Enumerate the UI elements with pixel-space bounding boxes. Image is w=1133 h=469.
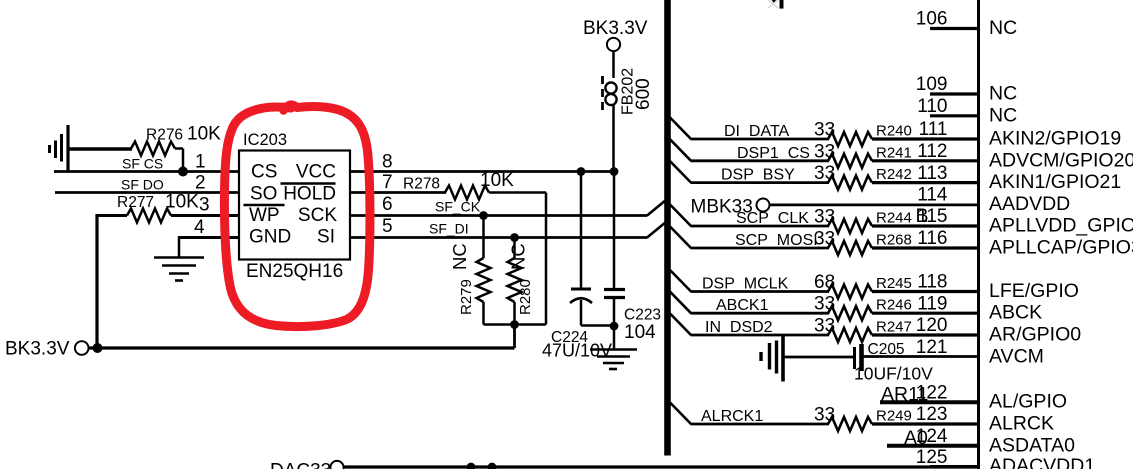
wire signal ALRCK1 bbox=[691, 423, 830, 426]
svg-text:SF DO: SF DO bbox=[121, 177, 164, 193]
svg-text:ABCK: ABCK bbox=[989, 302, 1042, 324]
svg-text:R245: R245 bbox=[876, 275, 912, 292]
svg-text:ALRCK: ALRCK bbox=[989, 413, 1054, 435]
svg-text:AADVDD: AADVDD bbox=[989, 193, 1070, 215]
svg-text:111: 111 bbox=[919, 119, 948, 140]
wire rail R279/R280 bottom bbox=[484, 323, 547, 326]
svg-text:10K: 10K bbox=[187, 124, 221, 145]
junction dot pin1/R276 bbox=[178, 167, 188, 177]
svg-text:BK3.3V: BK3.3V bbox=[5, 339, 70, 360]
resistor R279 NC bbox=[482, 216, 485, 259]
svg-text:SCK: SCK bbox=[298, 205, 337, 226]
wire R277 riser to BK3.3V rail bbox=[95, 214, 98, 348]
svg-text:10UF/10V: 10UF/10V bbox=[854, 364, 933, 384]
capacitor C223 104 bbox=[613, 172, 616, 290]
svg-text:IN_DSD2: IN_DSD2 bbox=[705, 319, 773, 336]
annotation red circle bbox=[224, 107, 370, 327]
wire SF CS (pin 1) bbox=[54, 170, 239, 173]
resistor R249 value 33 bbox=[828, 417, 872, 431]
svg-text:HOLD: HOLD bbox=[283, 184, 336, 205]
resistor R268 value 33 bbox=[828, 241, 872, 255]
svg-text:AKIN2/GPIO19: AKIN2/GPIO19 bbox=[989, 128, 1121, 150]
svg-text:APLLCAP/GPIO3: APLLCAP/GPIO3 bbox=[989, 237, 1133, 259]
power BK3.3V terminal left bbox=[75, 341, 89, 355]
svg-text:R240: R240 bbox=[876, 123, 912, 140]
resistor R242 value 33 bbox=[828, 176, 872, 190]
svg-text:NC: NC bbox=[449, 243, 470, 270]
svg-text:SF CS: SF CS bbox=[122, 156, 163, 172]
svg-text:33: 33 bbox=[814, 141, 835, 162]
bus vertical thick bbox=[664, 0, 671, 456]
wire pin 4 bbox=[179, 236, 239, 239]
wire R277 to pin 3 bbox=[171, 214, 239, 217]
wire R245 to pin 118 bbox=[872, 290, 978, 293]
svg-text:SCP_MOSI: SCP_MOSI bbox=[735, 232, 818, 249]
svg-text:DSP1_CS: DSP1_CS bbox=[737, 145, 810, 162]
wire signal DSP_BSY bbox=[691, 181, 830, 184]
svg-text:R242: R242 bbox=[876, 166, 912, 183]
svg-text:33: 33 bbox=[814, 294, 835, 315]
svg-text:B: B bbox=[916, 205, 929, 227]
ferrite bead FB202 600 bbox=[605, 82, 616, 93]
svg-text:AR/GPIO0: AR/GPIO0 bbox=[989, 324, 1081, 346]
svg-text:VCC: VCC bbox=[296, 162, 336, 183]
svg-text:ASDATA0: ASDATA0 bbox=[989, 434, 1075, 456]
wire bus diagonal pin 119 bbox=[670, 292, 691, 314]
wire R247 to pin 120 bbox=[872, 333, 978, 336]
svg-text:AVCM: AVCM bbox=[989, 346, 1044, 368]
wire pin 110 stub bbox=[930, 114, 978, 117]
junction dot SI/R280 bbox=[510, 233, 519, 242]
wire pin 122 stub bbox=[880, 400, 978, 404]
wire MBK33 to pin 114 bbox=[770, 203, 979, 206]
svg-text:5: 5 bbox=[382, 216, 393, 237]
svg-text:33: 33 bbox=[814, 207, 835, 228]
svg-text:3: 3 bbox=[199, 195, 210, 216]
svg-text:LFE/GPIO: LFE/GPIO bbox=[989, 280, 1079, 302]
svg-text:118: 118 bbox=[917, 272, 947, 293]
svg-text:IC203: IC203 bbox=[243, 131, 287, 149]
svg-text:122: 122 bbox=[916, 382, 948, 403]
svg-text:123: 123 bbox=[916, 404, 948, 425]
svg-text:68: 68 bbox=[814, 272, 835, 293]
junction dot rail/R280 bbox=[510, 320, 519, 329]
svg-text:116: 116 bbox=[917, 228, 947, 249]
svg-text:DAC33: DAC33 bbox=[270, 461, 331, 469]
svg-text:EN25QH16: EN25QH16 bbox=[246, 261, 343, 282]
svg-text:WP: WP bbox=[249, 205, 280, 226]
wire signal DSP1_CS bbox=[691, 159, 830, 162]
wire pin 7 to R278 bbox=[350, 191, 446, 194]
svg-text:R277: R277 bbox=[117, 194, 154, 211]
svg-text:DSP_BSY: DSP_BSY bbox=[721, 167, 795, 184]
resistor R276 bbox=[131, 142, 175, 156]
svg-text:125: 125 bbox=[916, 447, 948, 468]
resistor R247 value 33 bbox=[828, 328, 872, 342]
resistor R277 bbox=[97, 214, 127, 217]
wire SF DO (pin 2) bbox=[55, 191, 239, 194]
svg-text:SF_CK: SF_CK bbox=[435, 199, 481, 215]
svg-text:AL/GPIO: AL/GPIO bbox=[989, 391, 1067, 413]
ground G2 bbox=[154, 256, 204, 259]
wire pin 124 stub bbox=[887, 444, 978, 448]
svg-text:ADVCM/GPIO20: ADVCM/GPIO20 bbox=[989, 149, 1133, 171]
junction dot BK3.3V/R277 bbox=[93, 343, 103, 353]
svg-text:1: 1 bbox=[195, 152, 206, 173]
svg-text:C205: C205 bbox=[868, 341, 905, 358]
svg-text:R279: R279 bbox=[458, 279, 475, 315]
svg-text:GND: GND bbox=[249, 227, 291, 248]
wire FB202 to VCC node bbox=[612, 105, 615, 172]
wire bus diagonal pin 115 bbox=[670, 205, 691, 227]
resistor R245 value 68 bbox=[828, 285, 872, 299]
svg-text:10K: 10K bbox=[480, 170, 514, 191]
svg-text:SI: SI bbox=[317, 227, 335, 248]
ground G3 bbox=[590, 348, 637, 351]
wire bus diagonal pin 111 bbox=[670, 118, 691, 140]
svg-text:R276: R276 bbox=[146, 127, 183, 144]
svg-text:33: 33 bbox=[814, 163, 835, 184]
wire ground to C205 bbox=[783, 356, 854, 359]
resistor R241 value 33 bbox=[828, 154, 872, 168]
svg-text:DSP_MCLK: DSP_MCLK bbox=[702, 276, 789, 293]
wire bus diagonal pin 112 bbox=[670, 139, 691, 161]
resistor R246 value 33 bbox=[828, 306, 872, 320]
svg-text:ALRCK1: ALRCK1 bbox=[701, 408, 763, 425]
svg-text:NC: NC bbox=[989, 17, 1017, 39]
svg-text:ADACVDD1: ADACVDD1 bbox=[989, 455, 1095, 469]
junction dot C223/C224 ground bbox=[610, 322, 619, 331]
wire SF_DI pin 5 bbox=[350, 236, 647, 239]
svg-text:33: 33 bbox=[814, 405, 835, 426]
wire signal ABCK1 bbox=[691, 312, 830, 315]
junction dot on DAC33 wire bbox=[467, 463, 476, 469]
wire SF_CK pin 6 bbox=[350, 214, 647, 217]
svg-text:APLLVDD_GPIO: APLLVDD_GPIO bbox=[989, 215, 1133, 237]
capacitor C205 10UF/10V bbox=[853, 347, 856, 369]
svg-text:6: 6 bbox=[382, 194, 393, 215]
svg-text:33: 33 bbox=[814, 229, 835, 250]
wire DAC33 bbox=[344, 465, 979, 468]
wire R276 to node bbox=[175, 147, 183, 150]
wire riser rail to BK3.3V bbox=[513, 325, 516, 349]
svg-text:NC: NC bbox=[989, 104, 1017, 126]
wire ground to R276 bbox=[68, 147, 132, 150]
svg-text:R278: R278 bbox=[403, 176, 440, 193]
svg-text:113: 113 bbox=[917, 163, 947, 184]
wire R246 to pin 119 bbox=[872, 312, 978, 315]
wire pin 109 stub bbox=[930, 92, 978, 95]
svg-text:NC: NC bbox=[508, 243, 529, 270]
svg-text:R244: R244 bbox=[876, 210, 912, 227]
wire R268 to pin 116 bbox=[872, 246, 978, 249]
svg-text:4: 4 bbox=[194, 217, 205, 238]
svg-text:120: 120 bbox=[916, 315, 948, 336]
svg-text:R241: R241 bbox=[876, 144, 912, 161]
junction dot VCC/FB202/C223 bbox=[610, 167, 619, 176]
svg-text:R246: R246 bbox=[876, 297, 912, 314]
right IC left edge bbox=[977, 0, 980, 469]
wire BK3.3V to FB202 bbox=[612, 51, 615, 79]
resistor R240 value 33 bbox=[828, 132, 872, 146]
svg-text:R249: R249 bbox=[876, 408, 912, 425]
svg-text:106: 106 bbox=[916, 9, 948, 30]
wire R240 to pin 111 bbox=[872, 137, 978, 140]
wire R242 to pin 113 bbox=[872, 181, 978, 184]
svg-text:BK3.3V: BK3.3V bbox=[583, 18, 648, 39]
wire pin4 to ground bbox=[178, 236, 181, 258]
svg-text:8: 8 bbox=[382, 152, 393, 173]
svg-text:R247: R247 bbox=[876, 319, 912, 336]
svg-text:R280: R280 bbox=[517, 279, 534, 315]
svg-text:2: 2 bbox=[195, 173, 206, 194]
svg-text:119: 119 bbox=[917, 293, 947, 314]
svg-text:R268: R268 bbox=[876, 232, 912, 249]
wire VCC pin 8 bbox=[350, 170, 614, 173]
svg-text:600: 600 bbox=[633, 78, 654, 110]
svg-text:112: 112 bbox=[917, 141, 947, 162]
wire R241 to pin 112 bbox=[872, 159, 978, 162]
svg-text:ABCK1: ABCK1 bbox=[716, 297, 769, 314]
wire SF_DI bus entry diagonal bbox=[647, 220, 669, 238]
svg-text:7: 7 bbox=[382, 172, 393, 193]
svg-text:114: 114 bbox=[917, 185, 948, 206]
wire bus diagonal pin 116 bbox=[670, 227, 691, 249]
svg-text:AKIN1/GPIO21: AKIN1/GPIO21 bbox=[989, 171, 1121, 193]
junction dot VCC/C224 bbox=[577, 167, 586, 176]
wire bus diagonal pin 118 bbox=[670, 270, 691, 292]
op IC203 flash EN25QH16 box bbox=[239, 151, 350, 260]
ground chassis G1 bbox=[48, 145, 51, 153]
svg-text:SF_DI: SF_DI bbox=[429, 221, 469, 237]
svg-text:SO: SO bbox=[250, 184, 277, 205]
svg-text:110: 110 bbox=[917, 96, 947, 117]
wire bus diagonal pin 113 bbox=[670, 161, 691, 183]
svg-text:CS: CS bbox=[251, 162, 277, 183]
svg-text:109: 109 bbox=[916, 74, 948, 95]
wire signal DSP_MCLK bbox=[691, 290, 830, 293]
svg-text:SCP_CLK: SCP_CLK bbox=[736, 210, 809, 227]
wire SF_CK bus entry diagonal bbox=[647, 198, 669, 216]
wire pin 106 stub bbox=[930, 27, 978, 30]
arrow mark top bbox=[768, 0, 778, 8]
wire signal IN_DSD2 bbox=[691, 334, 830, 337]
wire bus diagonal pin 123 bbox=[670, 403, 691, 425]
junction dot on DAC33 wire 2 bbox=[488, 463, 497, 469]
wire R244 to pin 115 bbox=[872, 224, 978, 227]
wire bus diagonal pin 120 bbox=[670, 314, 691, 336]
wire signal SCP_CLK bbox=[691, 225, 830, 228]
resistor R244 value 33 bbox=[828, 219, 872, 233]
wire R249 to pin 123 bbox=[872, 422, 978, 425]
wire signal SCP_MOSI bbox=[691, 247, 830, 250]
ground chassis G4 bbox=[759, 352, 762, 361]
svg-text:33: 33 bbox=[814, 316, 835, 337]
resistor R278 bbox=[445, 186, 489, 200]
wire pin 125 stub bbox=[930, 465, 978, 468]
wire BK3.3V rail bbox=[89, 346, 515, 349]
svg-text:124: 124 bbox=[916, 426, 948, 447]
junction dot SCK/R279 bbox=[479, 211, 488, 220]
svg-text:121: 121 bbox=[916, 337, 948, 358]
wire signal DI_DATA bbox=[691, 138, 830, 141]
resistor R280 NC bbox=[513, 238, 516, 259]
svg-text:104: 104 bbox=[624, 322, 656, 343]
svg-text:C223: C223 bbox=[624, 307, 661, 324]
svg-text:NC: NC bbox=[989, 83, 1017, 105]
svg-text:33: 33 bbox=[814, 120, 835, 141]
svg-text:10K: 10K bbox=[165, 192, 199, 213]
wire R278 to BK3.3V rail bbox=[489, 191, 546, 194]
svg-text:DI_DATA: DI_DATA bbox=[724, 123, 790, 140]
capacitor C224 47U/10V bbox=[580, 172, 583, 290]
